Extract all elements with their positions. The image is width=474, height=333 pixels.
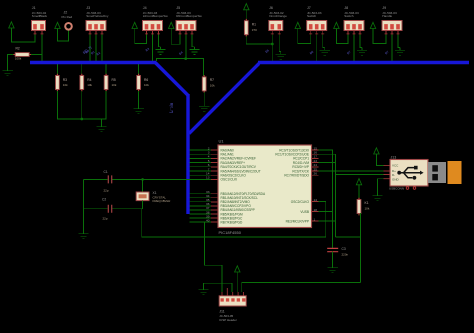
wire C3 to ground <box>332 252 334 265</box>
svg-text:K1: K1 <box>365 201 369 205</box>
wire common to ground <box>101 119 103 124</box>
power symbol J5 <box>169 22 174 28</box>
wire power to R1 <box>245 10 247 21</box>
wire bus to R4 <box>81 64 83 76</box>
ground R7 <box>199 104 209 112</box>
microcontroller U1 PIC18F4550 <box>206 138 318 235</box>
junction J6 node <box>271 43 274 46</box>
svg-text:J7: J7 <box>307 6 311 10</box>
svg-text:Pin Red: Pin Red <box>62 15 73 19</box>
power symbol J11 <box>235 266 240 272</box>
ground R2 <box>2 68 12 76</box>
net label B7 <box>346 50 352 56</box>
resistor R7 <box>202 75 215 93</box>
svg-text:OSC1/CLKI: OSC1/CLKI <box>221 178 238 182</box>
wire RE3 MCLR to net <box>319 220 336 222</box>
wire MCLR run to J11 pin5 <box>242 283 361 293</box>
svg-text:OmniOrange: OmniOrange <box>269 14 287 18</box>
wire crystal bottom lead <box>142 201 144 209</box>
resistor R5 <box>104 74 117 92</box>
wire R1 to J6 pin1 node <box>246 36 272 44</box>
power symbol K1 <box>356 179 361 185</box>
wire RC1 MCLR net <box>319 154 336 237</box>
svg-text:VUSB: VUSB <box>300 210 309 214</box>
wire power to K1 <box>358 185 360 200</box>
resistor R4 <box>80 74 93 92</box>
net label B8 <box>384 50 390 56</box>
connector J5 <box>176 6 203 35</box>
ground J6 <box>276 52 286 60</box>
power symbol J1 <box>9 22 14 28</box>
svg-text:RC7/RX/DT/SDO: RC7/RX/DT/SDO <box>284 174 309 178</box>
ground J7 <box>320 48 330 56</box>
net label B3 <box>145 47 151 53</box>
svg-text:R5: R5 <box>112 78 116 82</box>
wire J9 pin3 to ground <box>398 35 400 48</box>
wire R7 to ground <box>203 92 205 103</box>
bus diagonal left <box>155 63 188 96</box>
wire J8 pin2 to bus <box>353 35 355 61</box>
svg-text:D-: D- <box>392 173 395 177</box>
wire J6 pin1 to bus <box>271 32 273 61</box>
USB connector J13 <box>384 155 462 190</box>
svg-text:Switch: Switch <box>307 14 316 18</box>
svg-text:Switch: Switch <box>344 14 353 18</box>
svg-text:370: 370 <box>252 28 257 32</box>
net label B5 <box>264 48 270 54</box>
bus vertical <box>186 94 189 214</box>
power symbol J13 VCC <box>374 148 379 154</box>
svg-text:1: 1 <box>314 217 316 221</box>
wire J4 pin3 to ground <box>159 35 161 47</box>
svg-text:22p: 22p <box>103 216 108 220</box>
wire J3 pin3 to bus <box>101 35 103 61</box>
net label B4 <box>178 50 184 56</box>
wire bus to R3 <box>56 64 58 76</box>
net label B2 <box>96 51 102 57</box>
ground J5 <box>189 47 199 55</box>
wire K1 trunk down <box>359 213 361 283</box>
svg-text:220n: 220n <box>342 252 349 256</box>
svg-text:VCC: VCC <box>392 164 399 168</box>
wire J7 pin2 to bus <box>316 35 318 61</box>
wire J6 pin2 to ground <box>279 32 281 52</box>
wire R6 to ground <box>138 91 140 106</box>
wire VUSB to C3 <box>332 212 334 249</box>
svg-text:10k: 10k <box>87 83 92 87</box>
svg-text:10k: 10k <box>112 83 117 87</box>
wire J7 pin3 to ground <box>323 35 325 48</box>
wire R2 left to ground <box>8 55 16 69</box>
wire J4 pin1 to power <box>135 29 147 44</box>
svg-text:RB7/KBI3/PGD: RB7/KBI3/PGD <box>221 220 243 224</box>
svg-text:J6: J6 <box>269 6 273 10</box>
wire J8 pin3 to ground <box>360 35 362 48</box>
wire bus to R5 <box>105 64 107 76</box>
bus horizontal right <box>258 61 469 64</box>
resistor R3 <box>56 74 69 92</box>
svg-text:RtFrontBumperSw: RtFrontBumperSw <box>176 14 202 18</box>
svg-text:LtFrontBumperSw: LtFrontBumperSw <box>143 14 169 18</box>
svg-text:Handle: Handle <box>382 14 392 18</box>
wire R3 R4 R5 common <box>57 91 106 119</box>
power symbol J9 <box>370 22 375 28</box>
ground R6 <box>133 106 143 114</box>
wire RC6 to USB D+ <box>319 170 384 172</box>
wires bus to U1 left pins <box>190 150 212 222</box>
svg-text:ICSP Header: ICSP Header <box>219 318 237 322</box>
wire J11 ground run <box>204 283 232 292</box>
svg-text:R7: R7 <box>210 78 214 82</box>
wire J5 node to bus corner <box>156 59 203 76</box>
connector J11 <box>219 288 246 322</box>
wire J3 pin1 to bus <box>89 35 91 61</box>
wire bus to R6 <box>138 64 140 76</box>
junction R4 bottom <box>80 118 83 121</box>
svg-text:R3: R3 <box>63 78 67 82</box>
wire J7 pin1 to power <box>298 29 311 44</box>
wire J1 pin2 down to R2 node and bus <box>41 31 43 62</box>
wire RC0 to VUSB node <box>319 150 333 212</box>
svg-text:SmellBlack: SmellBlack <box>32 14 48 18</box>
svg-text:RE3/MCLR/VPP: RE3/MCLR/VPP <box>286 219 309 223</box>
svg-text:J9: J9 <box>382 6 386 10</box>
net label B6 <box>309 50 315 56</box>
svg-text:J13: J13 <box>391 155 397 159</box>
svg-text:R1: R1 <box>252 22 256 26</box>
resistor R6 <box>137 74 150 92</box>
wire J4 pin2 to bus <box>152 35 154 61</box>
wire J9 pin2 to bus <box>391 35 393 61</box>
svg-text:C1: C1 <box>104 170 108 174</box>
connector J1 <box>32 6 48 35</box>
connector J8 <box>344 6 364 35</box>
svg-text:C3: C3 <box>342 247 346 251</box>
power symbol J2 <box>55 22 60 28</box>
wire OSC2 net around bottom <box>142 202 326 237</box>
svg-text:PIC18F4550: PIC18F4550 <box>219 230 242 235</box>
wire C1 C2 to ground <box>83 179 85 231</box>
svg-text:100k: 100k <box>15 56 22 60</box>
ground R3 R4 R5 <box>96 124 106 132</box>
junction J5 node <box>184 57 187 60</box>
svg-text:10k: 10k <box>63 83 68 87</box>
svg-text:U1: U1 <box>219 138 225 143</box>
svg-text:10k: 10k <box>210 84 215 88</box>
bus range label <box>82 46 92 55</box>
bus horizontal left <box>30 61 156 64</box>
ground J13 <box>372 193 382 201</box>
bus vertical label <box>170 103 174 113</box>
wire J1 pin1 to power <box>11 28 35 42</box>
wire J2 to power <box>58 29 69 42</box>
wire RB7 PGD to J11 pin1 <box>205 222 222 292</box>
wire R4 bottom <box>81 91 83 119</box>
svg-text:J3: J3 <box>86 6 90 10</box>
ground J11 <box>198 287 208 295</box>
connector J2 <box>62 11 73 30</box>
net label B0 <box>85 49 91 55</box>
resistor R1 <box>244 19 257 37</box>
power symbol J8 <box>334 22 339 28</box>
svg-text:FREQ=8MHz: FREQ=8MHz <box>153 199 171 203</box>
wire R2 right to J1 pin2 node <box>31 54 43 56</box>
svg-text:R6: R6 <box>144 78 148 82</box>
wire J8 pin1 to power <box>336 29 348 44</box>
capacitor C2 <box>84 197 112 220</box>
wire RC4 to USB D- <box>319 163 384 175</box>
wire J5 pin1 to power <box>171 29 180 45</box>
power symbol R1 <box>244 4 249 10</box>
connector J4 <box>143 6 169 35</box>
wire J3 pin2 to bus <box>95 35 97 61</box>
svg-text:J8: J8 <box>344 6 348 10</box>
power symbol J7 <box>295 22 300 28</box>
crystal X1 <box>136 191 171 203</box>
svg-text:C2: C2 <box>102 197 106 201</box>
wire power to J13 VCC <box>376 154 383 165</box>
svg-text:GND: GND <box>392 177 400 181</box>
capacitor C1 <box>84 170 112 193</box>
svg-text:26: 26 <box>314 172 318 176</box>
connector J9 <box>382 6 402 35</box>
resistor K1 <box>357 198 370 216</box>
svg-text:10k: 10k <box>365 207 370 211</box>
ground J8 <box>357 48 367 56</box>
wire J5 pin2 to node <box>185 35 187 59</box>
svg-text:J1: J1 <box>32 6 36 10</box>
wire power to J11 pin4 <box>236 272 238 292</box>
svg-text:B[0..7]: B[0..7] <box>170 103 174 113</box>
ground J4 <box>155 47 165 55</box>
connector J7 <box>307 6 327 35</box>
wire J13 GND to ground <box>378 179 384 193</box>
connector J6 <box>269 6 287 35</box>
net label B1 <box>90 50 96 56</box>
capacitor C3 <box>327 247 348 256</box>
svg-text:14: 14 <box>314 198 318 202</box>
wire J5 pin3 to ground <box>192 35 195 47</box>
wire MCLR net to K1 trunk <box>336 236 361 238</box>
svg-text:22p: 22p <box>104 188 109 192</box>
svg-text:R4: R4 <box>87 78 91 82</box>
resistor R2 <box>13 46 31 60</box>
svg-text:SmellYellowOxy: SmellYellowOxy <box>86 14 109 18</box>
wire OSC1 from C1 to U1 <box>112 178 211 180</box>
junction crystal top <box>141 178 144 181</box>
bus diagonal right <box>189 64 259 134</box>
power symbol J4 <box>132 22 137 28</box>
svg-text:J5: J5 <box>176 6 180 10</box>
wire J9 pin1 to power <box>373 29 386 44</box>
svg-text:J4: J4 <box>143 6 147 10</box>
svg-text:10k: 10k <box>144 83 149 87</box>
ground J9 <box>395 48 405 56</box>
svg-text:R2: R2 <box>16 46 20 50</box>
ground C3 <box>327 265 337 273</box>
wire crystal top lead <box>142 179 144 192</box>
ground C1 C2 <box>78 231 88 239</box>
svg-text:OSC2/CLKO: OSC2/CLKO <box>291 200 310 204</box>
svg-text:18: 18 <box>314 208 318 212</box>
svg-text:USBCONN: USBCONN <box>389 186 404 190</box>
wire OSC2 from C2 to crystal <box>112 208 142 210</box>
connector J3 <box>86 6 109 35</box>
